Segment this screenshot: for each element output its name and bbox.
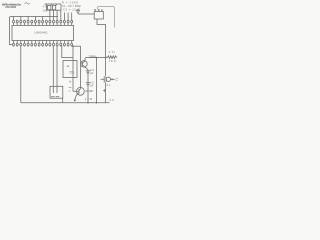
annotation squiggle xyxy=(25,3,30,4)
wire to block D xyxy=(62,46,73,58)
resistor R2 xyxy=(52,5,55,9)
wire node A long left drop xyxy=(20,46,22,103)
push switch S1 xyxy=(101,58,118,103)
resistor R1 xyxy=(48,5,51,9)
title text xyxy=(2,2,22,9)
bus drop to pin 9 xyxy=(42,17,44,21)
audio wire xyxy=(86,57,106,59)
legend text xyxy=(62,0,82,11)
transistor Q2 xyxy=(73,87,84,101)
capacitor C11 xyxy=(86,71,91,73)
comb wires to right pins xyxy=(50,10,72,20)
wire drop 1 xyxy=(46,4,48,10)
svg-text:UM 3481: UM 3481 xyxy=(5,5,16,9)
svg-text:µF: µF xyxy=(90,72,93,75)
speaker LS xyxy=(94,6,114,27)
svg-text:R = 100K: R = 100K xyxy=(62,0,78,4)
svg-text:AC128: AC128 xyxy=(85,89,93,93)
pin loop row top xyxy=(14,20,72,26)
label 4o xyxy=(69,87,72,91)
resistor R15 xyxy=(106,56,118,59)
wire F drop xyxy=(95,58,97,103)
block X1 xyxy=(63,61,77,78)
svg-text:4.7k: 4.7k xyxy=(43,5,49,8)
junction wire to rail xyxy=(73,45,81,47)
svg-text:4.7k: 4.7k xyxy=(109,51,116,54)
wire drop 3 xyxy=(55,4,57,10)
speaker cone xyxy=(97,6,114,27)
svg-text:UM3481: UM3481 xyxy=(35,31,48,35)
tie wire under resistors xyxy=(47,9,62,11)
wire to speaker xyxy=(78,13,94,15)
rail wire xyxy=(80,46,82,87)
svg-text:.3V.: .3V. xyxy=(108,98,116,102)
wire box to bus xyxy=(62,98,64,103)
svg-text:1KΩ: 1KΩ xyxy=(109,60,116,63)
bottom pin terminals xyxy=(13,41,73,47)
pin1 wrap wire xyxy=(9,18,12,45)
capacitor stack wire xyxy=(87,70,89,103)
label 1.5 b xyxy=(90,82,94,88)
top bus wire xyxy=(45,3,62,5)
speaker lead wires xyxy=(97,19,106,58)
transistor Q1 xyxy=(81,58,88,69)
label 1.5 xyxy=(90,69,94,75)
svg-text:12B: 12B xyxy=(85,97,92,101)
wire node E xyxy=(72,46,74,92)
bus drop to pin 1 xyxy=(13,17,15,21)
switch contacts xyxy=(51,86,59,97)
polarity mark xyxy=(103,89,106,92)
bottom bus wire xyxy=(21,102,110,104)
junction dots xyxy=(72,45,106,103)
wire drop 2 xyxy=(50,4,52,10)
capacitor C12 xyxy=(86,83,91,85)
speaker box xyxy=(94,12,103,20)
bus drop to pin 3 xyxy=(20,17,22,21)
wire to switch box C xyxy=(56,46,58,87)
switch box S2 xyxy=(50,86,63,98)
svg-text:S1: S1 xyxy=(107,84,112,87)
IC U1 UM3481 xyxy=(12,25,74,40)
wire drop 4 xyxy=(60,4,62,10)
capacitor C10 xyxy=(76,9,80,14)
block marks xyxy=(70,72,75,74)
bus drop to pin 5 xyxy=(27,17,29,21)
left bus wire xyxy=(9,17,58,19)
wire to switch box B xyxy=(52,46,54,87)
bus drop to pin 7 xyxy=(34,17,36,21)
svg-text:µF: µF xyxy=(90,84,93,87)
collector wire to audio line xyxy=(84,57,87,60)
top pin terminals xyxy=(13,20,73,26)
